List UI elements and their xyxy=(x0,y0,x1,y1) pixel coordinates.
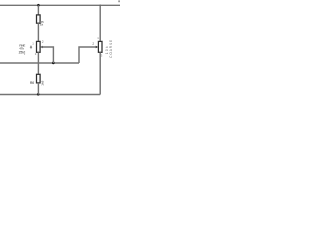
svg-text:25k]: 25k] xyxy=(19,50,26,54)
wire left branch: rail to R1 xyxy=(37,5,39,15)
wire bottom rail xyxy=(0,94,100,96)
wire RV1 wiper run to corner xyxy=(41,47,54,63)
svg-text:R6: R6 xyxy=(30,81,34,85)
svg-text:10k: 10k xyxy=(105,45,109,54)
wire RV2 bottom to bottom rail corner xyxy=(99,52,101,94)
node junction dot on top rail xyxy=(37,4,40,7)
wire RV1 to R2 xyxy=(37,52,39,74)
svg-text:2: 2 xyxy=(42,40,44,44)
svg-text:2: 2 xyxy=(92,42,94,46)
wire R2 to bottom rail xyxy=(37,83,39,95)
node corner T top right xyxy=(99,5,101,7)
svg-text:1k: 1k xyxy=(40,23,44,27)
potentiometer RV1 body xyxy=(37,41,41,52)
adjustment up arrow mark xyxy=(30,46,32,49)
potentiometer RV1 wiper arrow xyxy=(40,46,43,49)
svg-text:COARSE: COARSE xyxy=(109,39,113,58)
stray corner text fragment xyxy=(118,0,120,2)
wire output net line xyxy=(0,62,79,64)
svg-text:1k5: 1k5 xyxy=(41,80,45,85)
node junction dot bottom rail xyxy=(37,93,40,96)
resistor R2 body xyxy=(37,74,41,83)
wire right branch: rail down to RV2 xyxy=(99,5,101,41)
wire R1 to potentiometer RV1 xyxy=(37,23,39,41)
potentiometer RV2 wiper arrow xyxy=(96,46,99,49)
node junction dot on output net xyxy=(52,62,55,65)
wire top power rail xyxy=(0,4,120,6)
potentiometer RV2 body xyxy=(98,41,102,52)
resistor R1 body xyxy=(37,15,41,23)
wire RV2 wiper run to corner xyxy=(79,47,96,63)
